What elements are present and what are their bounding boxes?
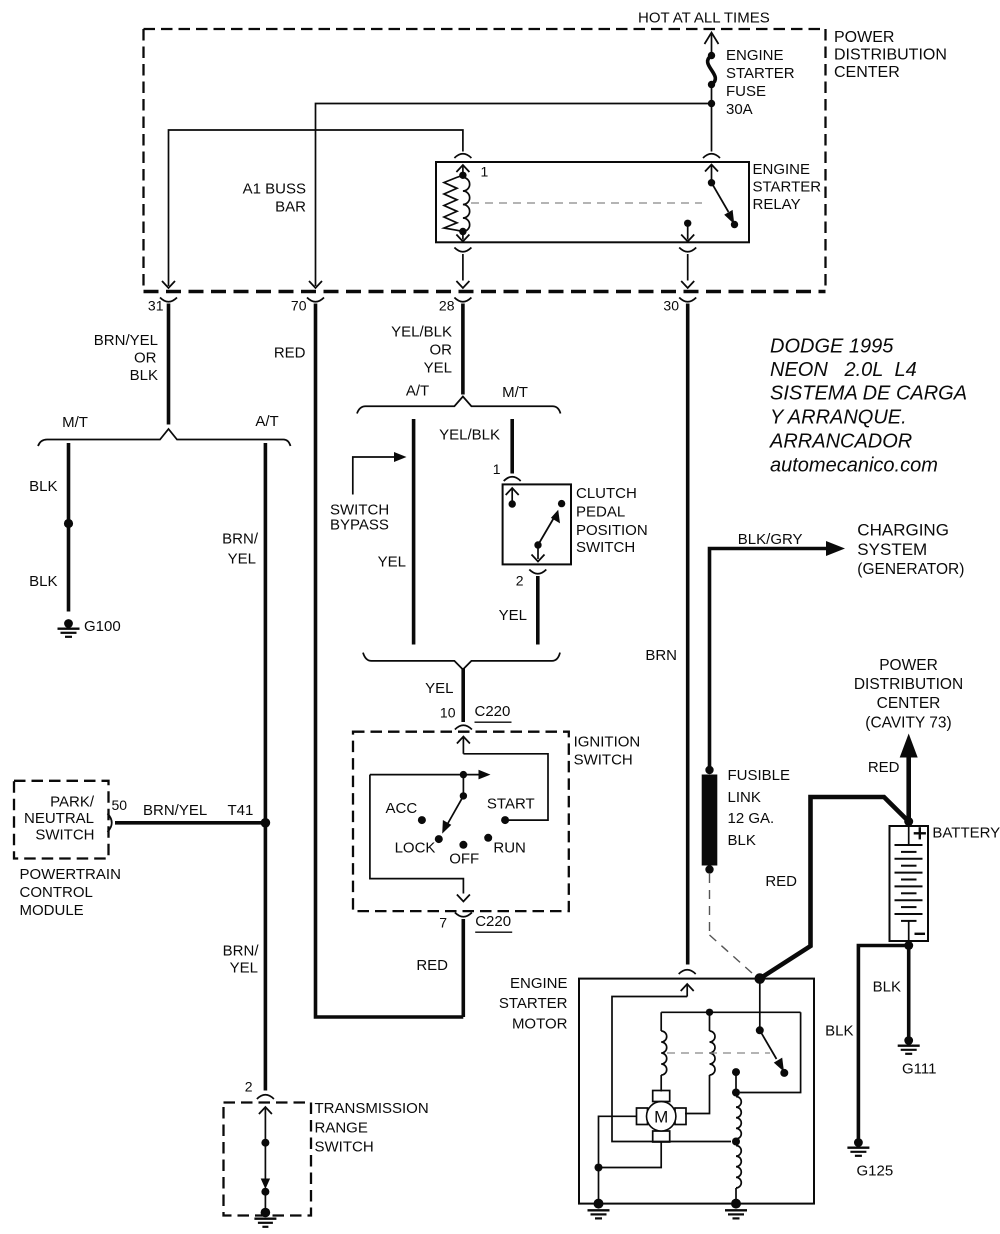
svg-text:FUSE: FUSE	[726, 83, 766, 100]
power distribution center label	[834, 29, 947, 81]
svg-text:CHARGING: CHARGING	[857, 520, 949, 539]
wire YEL to ignition switch	[461, 668, 465, 722]
label PARK/ NEUTRAL SWITCH	[24, 794, 95, 844]
wire BRN/YEL A/T branch down to transmission range switch	[264, 443, 268, 1091]
svg-text:TRANSMISSION: TRANSMISSION	[315, 1100, 429, 1117]
svg-text:YEL: YEL	[499, 607, 527, 624]
svg-text:SWITCH: SWITCH	[315, 1138, 374, 1155]
svg-text:YEL: YEL	[230, 960, 258, 977]
svg-text:G100: G100	[84, 618, 121, 635]
relay coil output arrow to pin 28	[456, 232, 469, 242]
wire to transmission ground	[264, 1192, 266, 1209]
svg-text:BATTERY: BATTERY	[932, 825, 1000, 842]
relay switch arm	[712, 183, 735, 225]
svg-text:(CAVITY 73): (CAVITY 73)	[865, 715, 951, 732]
relay switch output contact to pin 30	[681, 220, 694, 242]
wire to motor ground	[598, 1168, 600, 1204]
svg-text:FUSIBLE: FUSIBLE	[728, 767, 791, 784]
transmission switch lower contact	[261, 1188, 269, 1196]
wire: A1 buss bar to relay coil and pin 31	[169, 130, 463, 286]
svg-text:BLK: BLK	[29, 573, 57, 590]
stub to upper contact	[735, 1072, 737, 1092]
connector cap at ignition switch	[455, 725, 472, 729]
switch bypass arrow	[353, 452, 407, 495]
junction: fuse to buss bar	[708, 100, 715, 107]
label DODGE title block	[769, 336, 967, 477]
motor solenoid link dashed	[667, 1052, 770, 1054]
ignition switch dashed box	[353, 732, 569, 911]
connector cup below relay pin 28	[454, 248, 471, 252]
label FUSIBLE LINK 12 GA. BLK	[728, 767, 791, 849]
wire relay 30 to PDC edge	[681, 254, 694, 288]
svg-text:RED: RED	[765, 873, 797, 890]
svg-text:SISTEMA DE CARGA: SISTEMA DE CARGA	[770, 383, 967, 405]
label C220 top underlined	[475, 703, 512, 722]
engine starter motor box	[579, 979, 814, 1204]
starter switch arm	[760, 1030, 784, 1072]
connector cup pin 28	[454, 298, 471, 302]
wire solenoid feed inside motor box	[612, 997, 731, 1142]
label ENGINE STARTER FUSE 30A	[726, 47, 795, 118]
label POWERTRAIN CONTROL MODULE	[20, 866, 121, 919]
ignition rotor junction	[460, 771, 467, 778]
relay switch NO contact	[731, 221, 738, 228]
label IGNITION SWITCH	[574, 734, 641, 769]
svg-text:BLK: BLK	[130, 367, 158, 384]
svg-text:ENGINE: ENGINE	[726, 47, 784, 64]
svg-text:BRN: BRN	[645, 647, 677, 664]
field coil upper	[736, 1097, 741, 1139]
ground G100	[58, 619, 80, 637]
ignition entry arrow	[457, 737, 470, 754]
wire motor bottom terminal	[599, 1142, 662, 1168]
svg-text:STARTER: STARTER	[726, 65, 795, 82]
wire BLK/GRY to charging system with arrow	[710, 541, 846, 767]
joining brace YEL	[363, 653, 560, 670]
starter motor entry arrow	[681, 984, 694, 997]
svg-text:BLK/GRY: BLK/GRY	[738, 531, 803, 548]
contact OFF	[459, 841, 467, 849]
junction battery negative	[904, 941, 913, 950]
junction starter feed node	[755, 973, 766, 984]
connector cap at relay pin 1	[454, 154, 471, 158]
junction field coil mid	[732, 1138, 740, 1146]
wire: fuse output down	[711, 85, 713, 152]
svg-text:BYPASS: BYPASS	[330, 517, 389, 534]
relay U: engine starter relay box	[436, 162, 749, 242]
wire YEL from clutch switch	[536, 576, 540, 645]
junction motor return	[595, 1164, 603, 1172]
svg-text:PEDAL: PEDAL	[576, 503, 625, 520]
svg-text:7: 7	[439, 915, 447, 931]
fuse F: engine starter fuse 30A	[708, 52, 716, 88]
wire RED from pin 70 down and to ignition output corner	[316, 304, 464, 1018]
svg-text:ACC: ACC	[386, 800, 418, 817]
svg-text:OR: OR	[134, 350, 157, 367]
connector cap at clutch switch	[504, 477, 521, 481]
connector cup below relay pin 30	[679, 248, 696, 252]
svg-text:28: 28	[439, 298, 455, 314]
starter switch common contact	[756, 1026, 764, 1034]
svg-text:1: 1	[481, 164, 489, 180]
splice brace A/T M/T for pin 28	[357, 397, 561, 414]
wire BRN/YEL from pin 31	[167, 304, 171, 425]
svg-text:A/T: A/T	[255, 413, 278, 430]
ground at transmission range switch	[254, 1208, 276, 1227]
fusible link 12 GA BLK	[702, 766, 718, 874]
svg-text:YEL/BLK: YEL/BLK	[439, 427, 500, 444]
label CHARGING SYSTEM (GENERATOR)	[857, 520, 964, 578]
svg-text:START: START	[487, 796, 535, 813]
connector cup pin 70	[307, 298, 324, 302]
wire YEL/BLK from pin 28	[461, 304, 465, 395]
label BRN/ YEL lower	[223, 943, 260, 977]
wire BLK battery to G111	[907, 946, 911, 1037]
svg-text:YEL: YEL	[425, 680, 453, 697]
relay switch common contact	[708, 179, 715, 186]
clutch switch arm	[538, 510, 560, 545]
relay mechanical link dashed	[471, 202, 702, 204]
svg-text:C220: C220	[475, 913, 511, 930]
svg-text:SYSTEM: SYSTEM	[857, 540, 927, 559]
svg-text:T41: T41	[228, 802, 254, 819]
wire contact loop right	[740, 1012, 801, 1092]
svg-text:M/T: M/T	[62, 414, 88, 431]
junction on BLK wire	[64, 519, 73, 528]
junction solenoid top	[706, 1009, 713, 1016]
svg-text:(GENERATOR): (GENERATOR)	[857, 561, 964, 578]
contact LOCK	[435, 835, 443, 843]
svg-text:RANGE: RANGE	[315, 1120, 368, 1137]
svg-text:RED: RED	[868, 759, 900, 776]
label CLUTCH PEDAL POSITION SWITCH	[576, 485, 648, 556]
svg-text:BLK: BLK	[825, 1023, 853, 1040]
ignition output wire	[370, 775, 464, 894]
contact START	[501, 816, 509, 824]
svg-text:RUN: RUN	[493, 840, 526, 857]
starter switch feed from junction	[759, 979, 761, 1031]
clutch switch pin1 contact	[509, 500, 516, 507]
svg-text:HOT AT ALL TIMES: HOT AT ALL TIMES	[638, 10, 770, 27]
svg-text:RED: RED	[274, 345, 306, 362]
wire BRN from pin 30 to starter motor	[686, 304, 690, 965]
wire BLK M/T branch	[67, 443, 71, 612]
clutch pedal position switch box	[503, 484, 571, 564]
svg-text:BLK: BLK	[728, 832, 756, 849]
clutch switch right contact	[558, 500, 565, 507]
connector arrow at pin 70	[309, 281, 322, 288]
svg-text:IGNITION: IGNITION	[574, 734, 641, 751]
connector cup below clutch switch	[529, 570, 546, 574]
svg-text:C220: C220	[475, 703, 511, 720]
battery BT1	[890, 826, 929, 941]
svg-text:LINK: LINK	[728, 789, 761, 806]
transmission range switch dashed box	[224, 1103, 312, 1216]
wire BRN/YEL to T41	[115, 821, 265, 825]
label POWER DISTRIBUTION CENTER (CAVITY 73)	[854, 657, 963, 732]
ground at field coil	[725, 1199, 747, 1219]
svg-text:STARTER: STARTER	[753, 179, 822, 196]
svg-text:CENTER: CENTER	[834, 64, 900, 81]
svg-text:ENGINE: ENGINE	[753, 161, 811, 178]
svg-text:POWERTRAIN: POWERTRAIN	[20, 866, 121, 883]
svg-text:31: 31	[148, 298, 164, 314]
svg-text:CLUTCH: CLUTCH	[576, 485, 637, 502]
ground at motor	[588, 1199, 610, 1219]
contact RUN	[484, 834, 492, 842]
ignition rotor arm toward LOCK	[442, 796, 463, 834]
contact dot above field coil	[732, 1068, 740, 1076]
svg-text:30: 30	[663, 298, 679, 314]
wire YEL A/T branch	[412, 419, 416, 645]
svg-text:1: 1	[493, 461, 501, 477]
label ENGINE STARTER RELAY	[753, 161, 822, 213]
svg-text:OFF: OFF	[449, 851, 479, 868]
connector cap at relay switch input	[703, 154, 720, 158]
svg-text:BRN/YEL: BRN/YEL	[143, 802, 207, 819]
svg-text:RED: RED	[416, 957, 448, 974]
label BRN/ YEL upper	[222, 531, 259, 568]
svg-text:YEL: YEL	[424, 360, 452, 377]
ignition feed wire to START contact	[463, 754, 548, 820]
relay coil	[444, 172, 470, 236]
svg-text:BRN/: BRN/	[222, 531, 259, 548]
svg-text:MOTOR: MOTOR	[512, 1015, 568, 1032]
solenoid pull-in coil L1	[661, 1012, 667, 1091]
power distribution center dashed box	[144, 29, 826, 292]
svg-text:SWITCH: SWITCH	[574, 752, 633, 769]
svg-text:ARRANCADOR: ARRANCADOR	[769, 431, 912, 453]
splice brace M/T A/T left	[38, 429, 291, 446]
connector arrow at pin 31	[162, 281, 175, 288]
svg-text:A/T: A/T	[406, 383, 429, 400]
wire: buss bar feed to pin 70	[316, 104, 712, 287]
svg-text:Y ARRANQUE.: Y ARRANQUE.	[770, 407, 907, 429]
label TRANSMISSION RANGE SWITCH	[315, 1100, 429, 1156]
label A1 BUSS BAR	[243, 181, 307, 216]
svg-text:A1 BUSS: A1 BUSS	[243, 181, 306, 198]
wire motor left terminal	[599, 1116, 637, 1163]
ignition rotor pivot	[460, 792, 467, 799]
svg-text:M: M	[654, 1108, 668, 1127]
ground G111	[898, 1036, 920, 1054]
dashed wire from fusible link to starter junction	[710, 874, 758, 978]
svg-text:POWER: POWER	[879, 657, 938, 674]
svg-text:YEL/BLK: YEL/BLK	[391, 324, 452, 341]
svg-text:BAR: BAR	[275, 199, 306, 216]
svg-text:NEON 2.0L L4: NEON 2.0L L4	[770, 359, 917, 381]
relay switch input arrow	[705, 165, 718, 183]
solenoid hold-in coil L2	[685, 1012, 715, 1113]
svg-text:POWER: POWER	[834, 29, 894, 46]
svg-text:POSITION: POSITION	[576, 522, 648, 539]
svg-text:2: 2	[245, 1079, 253, 1095]
svg-text:BRN/: BRN/	[223, 943, 260, 960]
pin 1 entry arrow inside relay	[456, 165, 469, 175]
svg-text:SWITCH: SWITCH	[35, 827, 94, 844]
svg-text:10: 10	[440, 705, 456, 721]
clutch switch entry arrow	[506, 488, 519, 504]
svg-text:BLK: BLK	[29, 478, 57, 495]
connector at park/neutral switch	[108, 814, 112, 833]
label BRN/YEL OR BLK	[94, 332, 158, 384]
svg-text:G111: G111	[902, 1061, 936, 1078]
transmission switch entry arrow	[259, 1107, 272, 1143]
svg-text:DISTRIBUTION: DISTRIBUTION	[834, 47, 947, 64]
clutch switch exit arrow	[532, 545, 545, 562]
wire BLK battery to G125	[858, 946, 908, 1139]
junction battery positive	[904, 817, 913, 826]
svg-text:DODGE 1995: DODGE 1995	[770, 336, 894, 358]
wire solenoid top bus	[661, 1011, 800, 1013]
connector cup pin 30	[679, 298, 696, 302]
junction field coil top	[732, 1089, 740, 1097]
svg-text:70: 70	[291, 298, 307, 314]
svg-text:2: 2	[516, 573, 524, 589]
transmission switch arm arrow down	[261, 1143, 270, 1189]
park/neutral switch dashed box	[14, 781, 109, 859]
svg-text:50: 50	[112, 797, 128, 813]
ignition exit arrow	[457, 895, 470, 902]
svg-text:NEUTRAL: NEUTRAL	[24, 810, 94, 827]
svg-text:CENTER: CENTER	[877, 695, 941, 712]
label ENGINE STARTER MOTOR	[499, 975, 568, 1032]
wire YEL/BLK M/T branch	[510, 419, 514, 474]
svg-text:YEL: YEL	[378, 554, 406, 571]
connector cap at engine starter motor	[679, 970, 696, 974]
ignition rotor pivot link	[462, 775, 464, 796]
wire RED from ignition switch	[461, 919, 465, 1017]
wire RED battery to PDC cavity 73 arrow	[900, 734, 918, 822]
svg-text:YEL: YEL	[228, 551, 256, 568]
connector cup pin 31	[160, 298, 177, 302]
svg-text:DISTRIBUTION: DISTRIBUTION	[854, 676, 963, 693]
junction T41	[261, 818, 271, 828]
svg-text:30A: 30A	[726, 101, 753, 118]
svg-text:CONTROL: CONTROL	[20, 884, 93, 901]
svg-text:STARTER: STARTER	[499, 995, 568, 1012]
connector cup below ignition switch	[455, 913, 472, 917]
motor M armature	[637, 1091, 687, 1143]
svg-text:automecanico.com: automecanico.com	[770, 455, 938, 477]
svg-text:BRN/YEL: BRN/YEL	[94, 332, 158, 349]
svg-text:ENGINE: ENGINE	[510, 975, 568, 992]
transmission switch contact	[261, 1139, 269, 1147]
svg-text:MODULE: MODULE	[20, 902, 84, 919]
wire relay 28 to PDC edge	[456, 254, 469, 288]
ignition rotor arrow line	[370, 770, 491, 780]
wire: hot feed arrow into PDC	[705, 33, 719, 56]
ground G125	[847, 1138, 869, 1156]
clutch switch lower contact	[534, 541, 541, 548]
label SWITCH BYPASS	[330, 502, 389, 534]
field coil lower	[736, 1146, 741, 1204]
contact ACC	[418, 816, 426, 824]
svg-text:BLK: BLK	[873, 978, 901, 995]
svg-text:SWITCH: SWITCH	[576, 539, 635, 556]
svg-text:OR: OR	[430, 342, 453, 359]
label C220 bottom underlined	[475, 913, 512, 932]
svg-text:LOCK: LOCK	[395, 840, 436, 857]
svg-text:M/T: M/T	[502, 384, 528, 401]
wire RED battery to starter junction	[760, 797, 909, 979]
svg-text:RELAY: RELAY	[753, 196, 801, 213]
starter switch NO contact	[780, 1069, 788, 1077]
svg-text:12 GA.: 12 GA.	[728, 810, 775, 827]
svg-text:PARK/: PARK/	[50, 794, 95, 811]
svg-text:G125: G125	[857, 1163, 894, 1180]
label YEL/BLK OR YEL	[391, 324, 452, 377]
connector cap at transmission range switch	[257, 1095, 274, 1099]
